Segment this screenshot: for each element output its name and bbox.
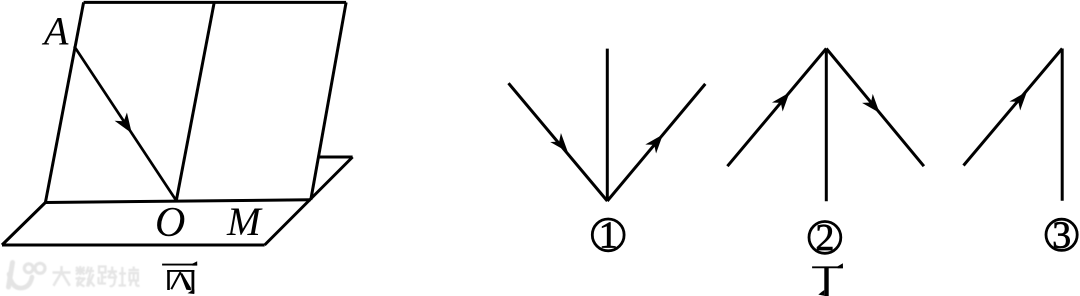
arrowhead reflected ray 1 — [645, 130, 668, 154]
svg-text:2: 2 — [815, 217, 834, 259]
丙 top stroke right serif — [192, 261, 197, 265]
丁 horizontal stroke — [812, 266, 843, 268]
watermark char 跨 — [99, 267, 118, 287]
watermark logo circle 2 — [35, 263, 45, 273]
丙 box right vertical — [191, 270, 194, 293]
丙 box left vertical — [167, 270, 170, 290]
caption 丁 (drawn strokes) — [812, 263, 843, 296]
svg-text:3: 3 — [1052, 214, 1071, 256]
丁 bottom hook — [818, 290, 824, 296]
svg-text:1: 1 — [599, 215, 618, 257]
slanted plane right edge — [311, 2, 346, 199]
arrowhead incident ray 1 — [550, 133, 573, 157]
arrowhead incident ray 2 — [772, 88, 795, 112]
reflected ray 1 — [607, 84, 705, 201]
circled label 3 — [1046, 214, 1077, 256]
丙 inner right-falling stroke — [180, 273, 191, 290]
reflected ray 2 — [826, 49, 924, 167]
丙 right vertical hook — [188, 290, 195, 295]
丁 horizontal right serif — [838, 263, 843, 268]
svg-text:A: A — [41, 9, 69, 54]
丁 vertical stroke — [824, 267, 828, 296]
arrowhead on ray A-O — [115, 113, 138, 138]
arrowhead ray 3 — [1009, 87, 1032, 111]
normal line 3 — [1061, 49, 1064, 201]
丙 inner left-falling stroke — [171, 272, 180, 289]
arrowhead reflected ray 2 — [862, 94, 885, 118]
fold line to O — [176, 2, 214, 200]
light ray A to O — [74, 46, 176, 200]
丙 top horizontal — [162, 264, 197, 266]
svg-text:O: O — [155, 200, 185, 246]
caption 丙 (drawn strokes) — [162, 261, 197, 294]
watermark logo circle 1 — [24, 264, 33, 273]
watermark char 大 — [53, 266, 71, 286]
watermark logo stroke 1 — [9, 263, 13, 288]
ground plane top edge (visible part) — [319, 156, 353, 159]
ground plane right edge — [265, 157, 353, 245]
incident ray 1 — [509, 83, 608, 201]
slanted plane top edge — [84, 1, 347, 4]
circled label 1 — [592, 215, 624, 257]
circled label 2 — [809, 217, 841, 259]
slanted plane bottom edge — [45, 200, 310, 203]
normal line 1 — [606, 49, 609, 201]
svg-text:M: M — [226, 199, 263, 244]
slanted plane left edge — [45, 2, 83, 202]
incident ray 2 — [727, 49, 826, 167]
丙 box top horizontal — [167, 270, 194, 272]
ground plane left edge — [2, 203, 45, 246]
watermark char 境 — [119, 267, 140, 287]
ray 3 — [964, 49, 1063, 166]
watermark logo smile arc — [9, 274, 32, 288]
normal line 2 — [825, 49, 828, 202]
ground plane bottom edge — [2, 244, 265, 247]
watermark char 数 — [76, 266, 95, 287]
